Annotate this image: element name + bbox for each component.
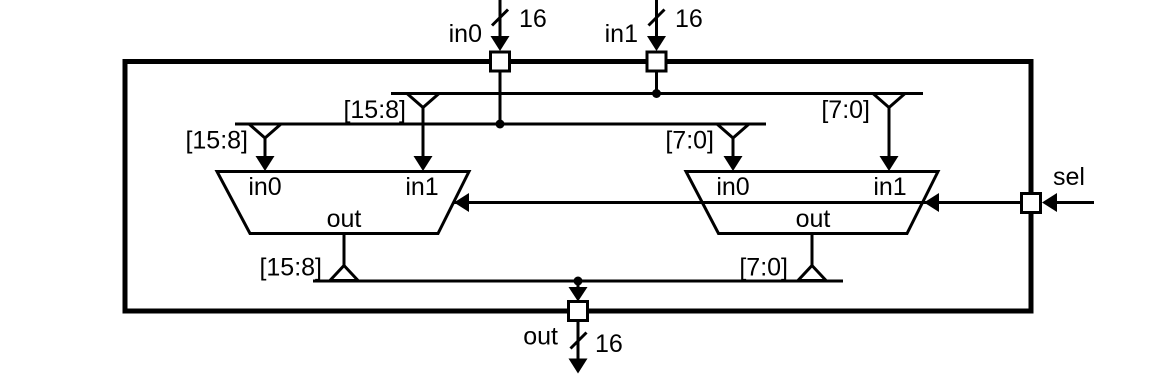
wire tap to right mux in1 — [888, 108, 891, 159]
svg-text:16: 16 — [519, 5, 547, 33]
wire left mux out — [343, 234, 346, 267]
svg-text:in1: in1 — [873, 173, 906, 201]
tap [7:0] on line1 (to right mux in1) — [873, 94, 905, 108]
tap [7:0] on line2 (to right mux in0) — [717, 124, 749, 138]
bus line1 (in1 16-bit bus) — [391, 92, 923, 95]
wire out to port — [577, 281, 580, 288]
wire sel external — [1056, 201, 1094, 204]
port square sel — [1022, 194, 1041, 213]
wire sel internal (port to both muxes) — [454, 201, 1020, 204]
svg-text:in1: in1 — [605, 20, 638, 48]
arrowhead into left mux in0 — [256, 156, 275, 171]
svg-text:16: 16 — [675, 5, 703, 33]
wire tap to right mux in0 — [732, 138, 735, 158]
arrowhead into left mux in1 — [414, 156, 433, 171]
svg-text:in1: in1 — [405, 173, 438, 201]
port square out — [569, 302, 588, 321]
svg-text:out: out — [523, 323, 558, 351]
junction dot in0 on bus line2 — [496, 120, 505, 129]
arrowhead sel into right mux — [924, 193, 939, 212]
arrowhead out into port — [569, 287, 588, 302]
svg-text:in0: in0 — [449, 20, 482, 48]
bus line2 (in0 16-bit bus) — [235, 123, 766, 126]
svg-text:in0: in0 — [248, 173, 281, 201]
out bus line — [313, 280, 843, 283]
svg-text:in0: in0 — [716, 173, 749, 201]
arrowhead sel into left mux — [454, 193, 469, 212]
tap [15:8] on line1 (to left mux in1) — [407, 94, 439, 108]
wire right mux out — [811, 234, 814, 267]
junction dot out — [574, 277, 583, 286]
wire in0 external — [499, 0, 502, 38]
junction dot in1 on bus line1 — [652, 89, 661, 98]
module box — [125, 62, 1031, 312]
svg-text:[7:0]: [7:0] — [821, 96, 870, 124]
mux U2 (low byte 7:0) — [686, 172, 938, 234]
wire in0 internal — [499, 72, 502, 124]
svg-text:[15:8]: [15:8] — [259, 254, 322, 282]
arrowhead into right mux in0 — [724, 156, 743, 171]
svg-text:out: out — [327, 205, 362, 233]
svg-text:[15:8]: [15:8] — [343, 96, 406, 124]
merge tap [15:8] onto out bus — [330, 266, 358, 281]
arrowhead into right mux in1 — [880, 156, 899, 171]
mux U1 (high byte 15:8) — [217, 172, 469, 234]
svg-text:[15:8]: [15:8] — [185, 127, 248, 155]
svg-text:[7:0]: [7:0] — [739, 254, 788, 282]
port square in1 — [647, 52, 666, 71]
bus slash in0 — [492, 10, 508, 26]
tap [15:8] on line2 (to left mux in0) — [249, 124, 281, 138]
arrowhead sel into port — [1042, 193, 1057, 212]
bus slash out — [571, 333, 587, 349]
wire in1 external — [655, 0, 658, 38]
svg-text:16: 16 — [595, 330, 623, 358]
wire out external — [577, 322, 580, 361]
svg-text:sel: sel — [1053, 163, 1085, 191]
arrowhead in1 into port — [647, 36, 666, 51]
merge tap [7:0] onto out bus — [798, 266, 826, 281]
wire tap to left mux in0 — [264, 138, 267, 158]
wire tap to left mux in1 — [422, 108, 425, 159]
bus slash in1 — [649, 10, 665, 26]
svg-text:out: out — [796, 205, 831, 233]
arrowhead out external — [569, 359, 588, 374]
wire in1 internal — [655, 72, 658, 94]
port square in0 — [491, 52, 510, 71]
arrowhead in0 into port — [491, 36, 510, 51]
svg-text:[7:0]: [7:0] — [665, 127, 714, 155]
